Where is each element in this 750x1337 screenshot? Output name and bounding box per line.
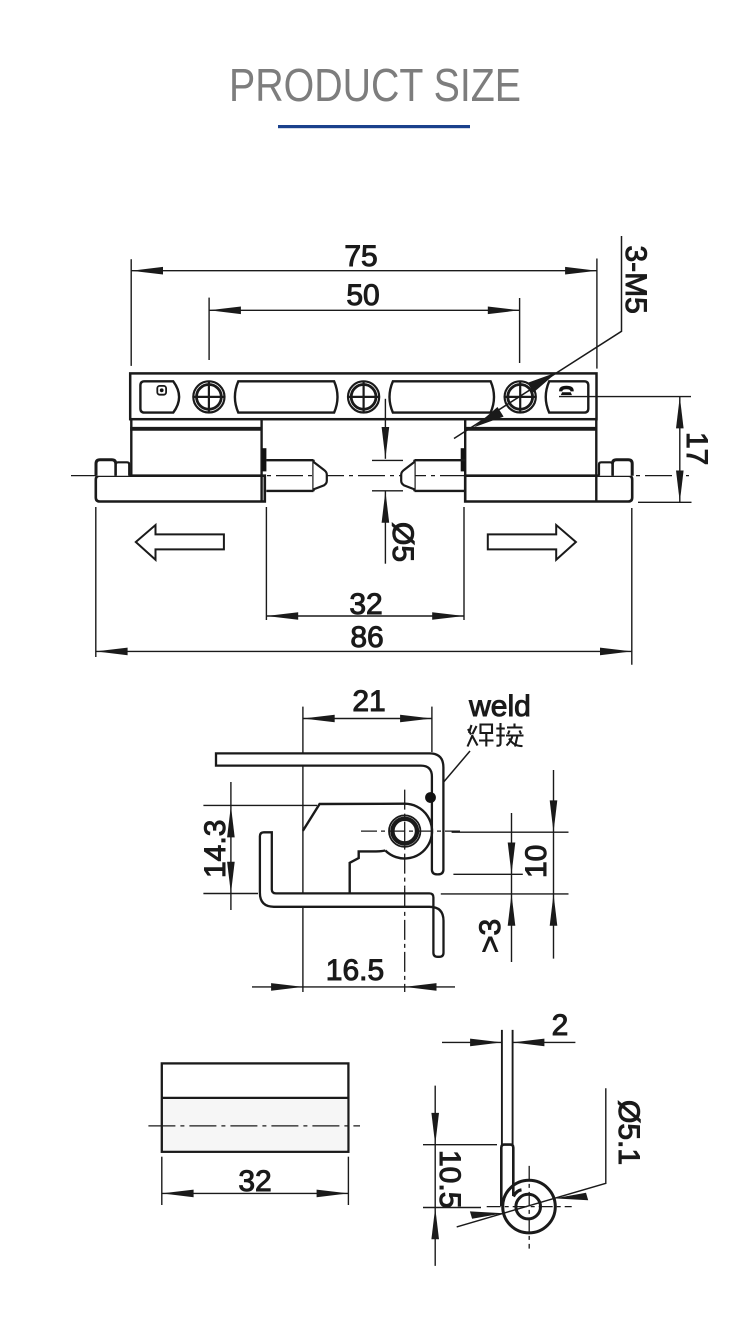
right ear block: [612, 460, 632, 476]
label 3-M5 leader: [454, 236, 622, 439]
small square hole with dot: [157, 386, 166, 395]
right pin nose: [401, 462, 414, 490]
phone icon: [559, 386, 574, 395]
left ear block: [96, 460, 116, 476]
svg-text:75: 75: [344, 240, 377, 273]
dimension 32 top view: [266, 507, 464, 620]
dimension 17: [559, 397, 692, 503]
right hinge block side left: [464, 419, 466, 501]
knuckle centerline vertical: [404, 790, 406, 888]
flange and upper right strip: [216, 753, 443, 874]
dimension >3: [453, 813, 522, 962]
dimension 14.3: [203, 782, 317, 910]
svg-text:14.3: 14.3: [199, 820, 232, 878]
curled pin bore: [516, 1194, 541, 1219]
dimension 86: [96, 507, 632, 665]
bush centerline: [148, 1125, 360, 1127]
knuckle pin bore: [392, 819, 417, 844]
bar right cutout: [546, 381, 589, 412]
dimension 21: [303, 707, 432, 992]
hinge top bar: [130, 373, 596, 419]
left pin nose: [314, 462, 327, 490]
bar slot 2: [235, 381, 338, 412]
left hinge block side right: [260, 419, 262, 501]
dimension 75: [131, 259, 597, 369]
svg-text:32: 32: [349, 588, 382, 621]
dimension 50: [209, 298, 519, 363]
knuckle disc fill: [377, 804, 432, 859]
svg-text:weld: weld: [468, 690, 531, 723]
right pin body: [415, 460, 466, 491]
strip thin section: [501, 1030, 503, 1146]
bush parting line: [162, 1097, 349, 1099]
left block top thick line: [130, 427, 261, 431]
dimension 32 bottom: [162, 1157, 349, 1205]
left mounting leaf lower body: [96, 476, 265, 502]
dimension 2: [442, 1039, 575, 1047]
weld dot: [425, 792, 436, 803]
left hinge block side left: [130, 419, 132, 476]
svg-text:50: 50: [346, 279, 379, 312]
screw hole 2: [347, 381, 380, 414]
hinge leaf lower profile: [350, 851, 386, 893]
svg-text:>3: >3: [474, 919, 507, 953]
bush lower face shading: [163, 1099, 347, 1151]
right ear step: [599, 462, 612, 475]
left ear step: [116, 462, 129, 475]
extension of knuckle axis down: [404, 888, 406, 992]
svg-text:Ø5.1: Ø5.1: [612, 1100, 645, 1165]
left pin dark root: [262, 448, 267, 471]
svg-text:10: 10: [520, 845, 553, 878]
weld leader: [431, 751, 471, 798]
hinge leaf top edge: [303, 804, 405, 831]
svg-text:3-M5: 3-M5: [619, 246, 652, 314]
pin upper section: [501, 1145, 513, 1206]
svg-text:Ø5: Ø5: [386, 522, 419, 562]
svg-text:2: 2: [552, 1009, 569, 1042]
svg-text:17: 17: [680, 432, 713, 465]
dimension 10.5: [423, 1086, 497, 1266]
pin bush body: [162, 1063, 349, 1151]
big outline arrow left: [136, 525, 224, 560]
big outline arrow right: [488, 525, 576, 560]
svg-text:86: 86: [350, 621, 383, 654]
svg-text:PRODUCT SIZE: PRODUCT SIZE: [229, 59, 521, 111]
curl end beak: [513, 1190, 521, 1197]
screw hole 1: [193, 381, 226, 414]
screw hole 3: [504, 381, 537, 414]
right mounting leaf lower body: [465, 476, 632, 502]
label phi5.1 leader: [457, 1088, 606, 1227]
svg-text:16.5: 16.5: [326, 954, 384, 987]
right hinge block side right: [595, 419, 597, 501]
weld label chinese: [468, 723, 524, 747]
dimension 10: [441, 770, 569, 959]
bent bracket strip: [260, 832, 444, 957]
right pin dark root: [461, 448, 466, 471]
curled pin outer: [503, 1180, 556, 1233]
dimension phi5: [372, 399, 403, 564]
dimension 16.5: [252, 983, 455, 991]
curl centerline vertical: [528, 1166, 530, 1249]
knuckle ring outer: [389, 815, 420, 846]
title underline: [278, 125, 470, 128]
curl centerline horizontal: [487, 1206, 572, 1208]
bar slot 3: [390, 381, 495, 412]
knuckle centerline horizontal: [361, 830, 460, 832]
left pin body: [266, 460, 313, 491]
right block top thick line: [465, 427, 596, 431]
centerline horizontal axis: [71, 475, 689, 477]
svg-text:32: 32: [238, 1165, 271, 1198]
svg-text:21: 21: [352, 685, 385, 718]
svg-text:10.5: 10.5: [433, 1150, 466, 1208]
knuckle outer arc: [385, 804, 432, 859]
bar left cutout: [140, 381, 179, 412]
